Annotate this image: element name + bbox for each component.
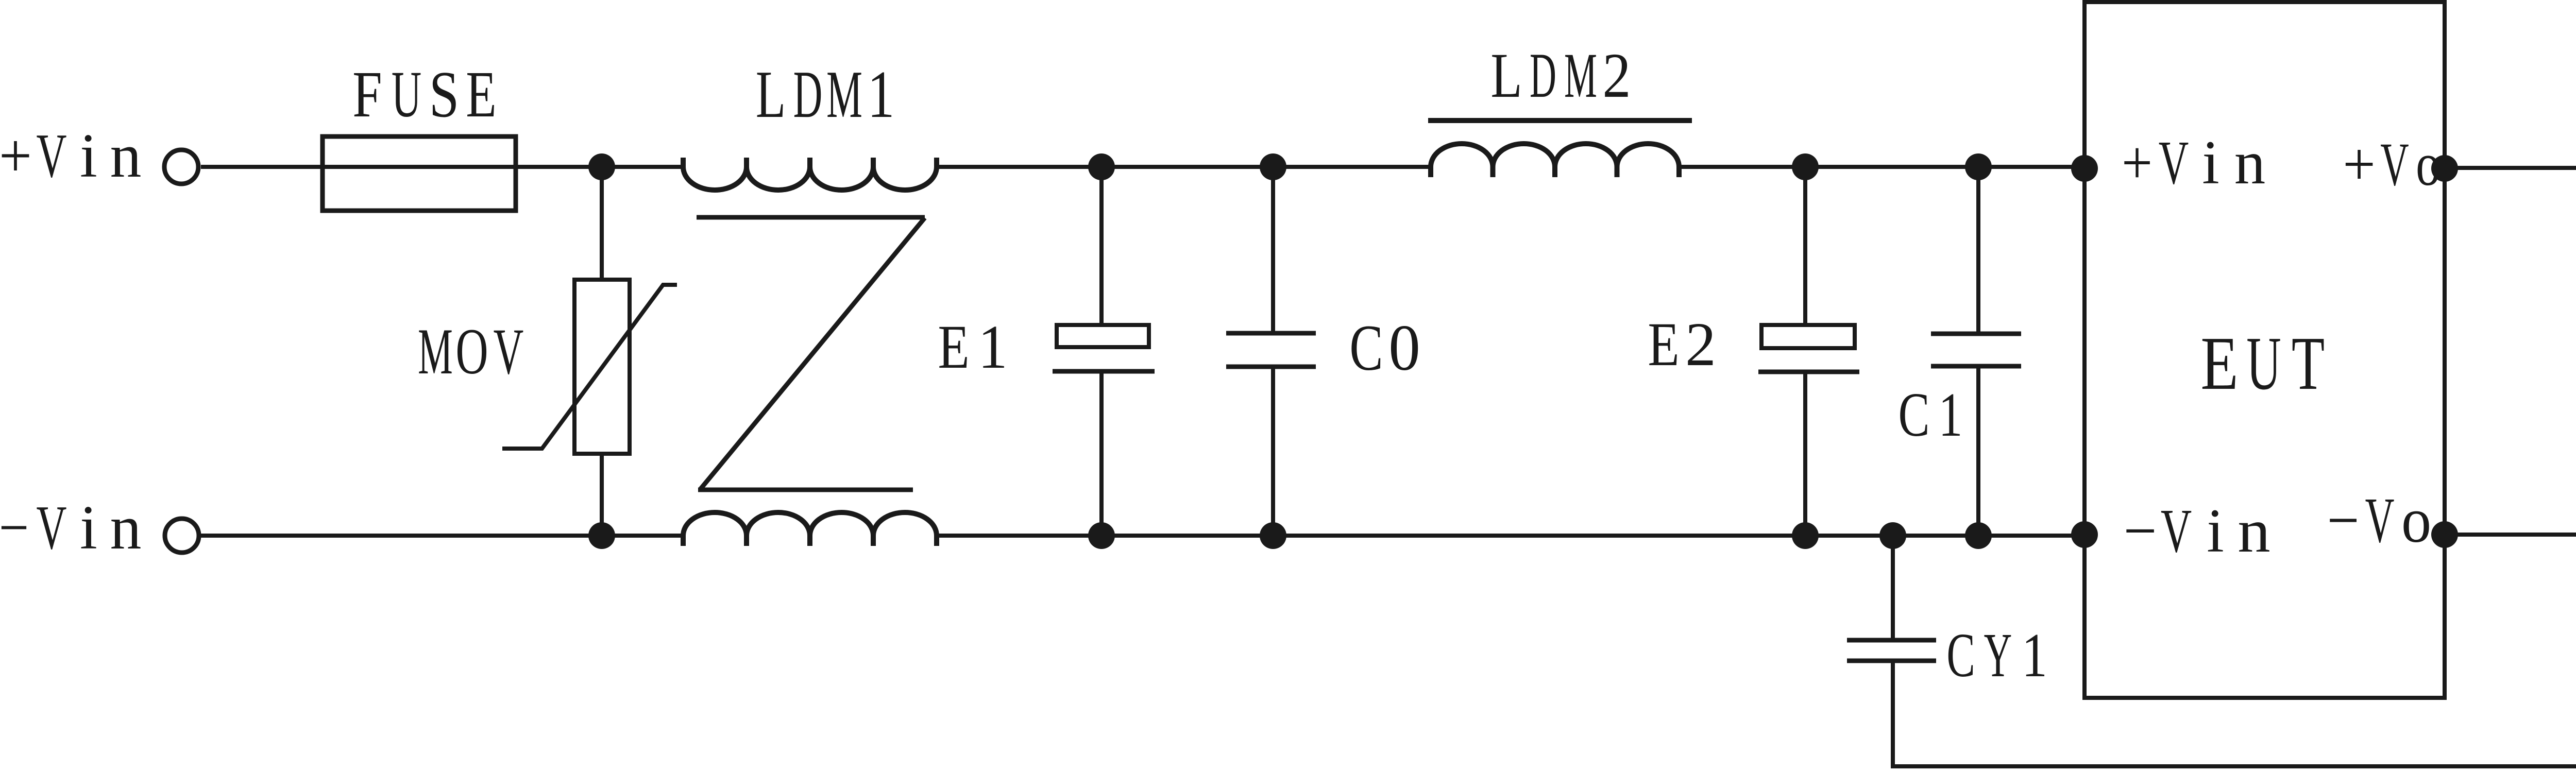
svg-text:2: 2 [1685, 310, 1716, 379]
capacitor E1 negative plate [1053, 369, 1155, 374]
node E1 bottom junction [1088, 522, 1115, 549]
inductor LDM1 bottom winding [683, 512, 937, 536]
capacitor E1 positive plate [1057, 325, 1149, 347]
svg-text:U: U [2246, 321, 2281, 405]
varistor MOV diagonal stroke [502, 285, 677, 449]
terminal +Vin input [164, 150, 198, 184]
svg-text:E: E [466, 58, 496, 131]
label C1 [1898, 380, 1962, 450]
svg-text:L: L [756, 57, 786, 131]
EUT box [2084, 2, 2445, 698]
svg-text:n: n [110, 493, 142, 562]
node EUT -Vin pin [2071, 521, 2098, 548]
label EUT +Vin pin [2122, 128, 2265, 197]
svg-text:1: 1 [2022, 621, 2047, 691]
node EUT -Vo pin [2431, 521, 2458, 548]
svg-text:+: + [2343, 130, 2376, 199]
svg-text:S: S [429, 58, 459, 131]
label LDM1 [756, 57, 895, 132]
label -Vin input [0, 493, 141, 562]
svg-text:V: V [2365, 485, 2395, 556]
svg-text:i: i [2202, 128, 2219, 197]
wire MOV bottom lead [600, 454, 604, 536]
wire top rail right segment [1679, 165, 2084, 169]
svg-text:1: 1 [1939, 380, 1963, 450]
wire bottom rail right segment [937, 534, 2084, 538]
label LDM2 [1490, 40, 1631, 111]
inductor LDM1 bottom winding ticks [683, 535, 937, 546]
inductor LDM1 top winding ticks [683, 158, 937, 168]
svg-text:−: − [2124, 496, 2157, 565]
wire C0 bottom lead [1271, 369, 1275, 536]
svg-text:V: V [36, 493, 66, 562]
capacitor E2 positive plate [1761, 325, 1855, 348]
node C1 bottom junction [1965, 522, 1992, 549]
svg-text:D: D [1530, 40, 1556, 111]
label E2 [1648, 310, 1716, 379]
label +Vin input [0, 121, 141, 191]
svg-text:−: − [0, 493, 29, 562]
node MOV top junction [588, 153, 615, 180]
label EUT [2200, 321, 2325, 406]
label C0 [1349, 312, 1420, 385]
svg-text:M: M [418, 315, 453, 388]
node CY1 junction [1879, 522, 1906, 549]
node EUT +Vo pin [2431, 155, 2458, 182]
svg-text:U: U [392, 59, 421, 131]
wire E2 top lead [1803, 167, 1807, 325]
svg-text:V: V [2380, 130, 2409, 198]
wire -Vo output [2445, 533, 2576, 537]
wire E1 bottom lead [1099, 373, 1104, 536]
svg-text:E: E [2200, 321, 2238, 406]
node C0 top junction [1260, 153, 1286, 180]
svg-text:V: V [2161, 496, 2192, 565]
wire CY1 bottom lead [1891, 663, 1895, 766]
svg-text:V: V [494, 316, 524, 388]
wire CY1 top lead [1891, 536, 1895, 638]
wire ground return rail [1891, 764, 2576, 768]
inductor LDM2 winding [1431, 144, 1679, 167]
svg-text:M: M [826, 58, 862, 132]
label EUT +Vo pin [2343, 130, 2441, 199]
svg-text:1: 1 [978, 312, 1007, 381]
inductor LDM1 top winding [683, 167, 937, 190]
svg-text:+: + [0, 121, 32, 191]
node MOV bottom junction [588, 522, 615, 549]
svg-text:i: i [2207, 496, 2224, 565]
capacitor C0 plates [1226, 333, 1316, 367]
svg-text:n: n [2238, 496, 2270, 565]
svg-text:C: C [1349, 312, 1383, 384]
wire top rail middle segment [937, 165, 1431, 169]
capacitor C1 plates [1931, 334, 2021, 366]
svg-text:o: o [2416, 130, 2441, 199]
svg-text:L: L [1490, 40, 1522, 111]
wire C0 top lead [1271, 167, 1275, 331]
wire bottom rail left segment [200, 534, 683, 538]
wire E2 bottom lead [1803, 374, 1807, 536]
svg-text:O: O [455, 315, 488, 388]
svg-text:E: E [938, 313, 969, 382]
label EUT -Vo pin [2327, 485, 2431, 556]
svg-text:−: − [2327, 485, 2360, 556]
svg-text:i: i [80, 121, 97, 191]
wire C1 bottom lead [1976, 368, 1980, 536]
core LDM2 bar [1428, 118, 1692, 123]
svg-text:n: n [2234, 128, 2266, 197]
capacitor E2 negative plate [1758, 370, 1859, 374]
wire +Vo output [2445, 166, 2576, 170]
svg-text:1: 1 [867, 57, 894, 132]
node EUT +Vin pin [2071, 155, 2098, 182]
node E2 bottom junction [1792, 522, 1819, 549]
svg-text:T: T [2292, 321, 2325, 406]
fuse FUSE body [323, 136, 516, 211]
wire top rail left segment [201, 165, 683, 169]
svg-text:C: C [1946, 620, 1975, 690]
terminal -Vin input [165, 519, 199, 553]
svg-text:n: n [110, 121, 142, 191]
svg-text:2: 2 [1602, 40, 1631, 111]
wire MOV top lead [600, 167, 604, 280]
svg-text:V: V [36, 121, 66, 191]
node C1 top junction [1965, 153, 1992, 180]
svg-text:M: M [1564, 40, 1597, 111]
svg-text:C: C [1898, 381, 1929, 450]
inductor LDM2 winding ticks [1431, 166, 1679, 177]
svg-text:i: i [80, 493, 97, 562]
wire C1 top lead [1976, 167, 1980, 332]
svg-text:+: + [2122, 128, 2153, 197]
svg-text:Y: Y [1984, 621, 2012, 690]
node E2 top junction [1792, 153, 1819, 180]
wire E1 top lead [1099, 167, 1104, 325]
capacitor CY1 plates [1847, 640, 1936, 661]
svg-text:D: D [793, 58, 823, 132]
svg-text:F: F [352, 58, 382, 131]
label FUSE [352, 58, 497, 131]
label EUT -Vin pin [2124, 496, 2270, 565]
svg-text:0: 0 [1388, 312, 1420, 384]
label E1 [938, 312, 1007, 382]
svg-text:o: o [2401, 485, 2431, 556]
svg-text:E: E [1648, 310, 1679, 379]
label CY1 [1946, 620, 2047, 690]
varistor MOV body [574, 280, 630, 454]
svg-text:V: V [2159, 128, 2189, 197]
node E1 top junction [1088, 153, 1115, 180]
core LDM1 Z symbol [697, 217, 925, 490]
label MOV [418, 315, 523, 388]
node C0 bottom junction [1260, 522, 1286, 549]
